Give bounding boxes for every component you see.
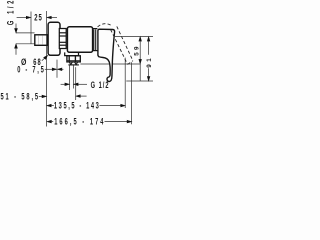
svg-text:166,5 - 174: 166,5 - 174 <box>54 116 105 127</box>
svg-text:G 1/2: G 1/2 <box>91 80 110 91</box>
svg-text:G 1/2: G 1/2 <box>5 0 16 25</box>
svg-text:0 - 7,5: 0 - 7,5 <box>17 64 45 75</box>
svg-text:25: 25 <box>34 12 42 23</box>
svg-text:59: 59 <box>134 44 141 55</box>
svg-text:91: 91 <box>146 56 153 68</box>
svg-text:51 - 58,5: 51 - 58,5 <box>1 91 40 102</box>
svg-text:135,5 - 143: 135,5 - 143 <box>54 100 101 111</box>
